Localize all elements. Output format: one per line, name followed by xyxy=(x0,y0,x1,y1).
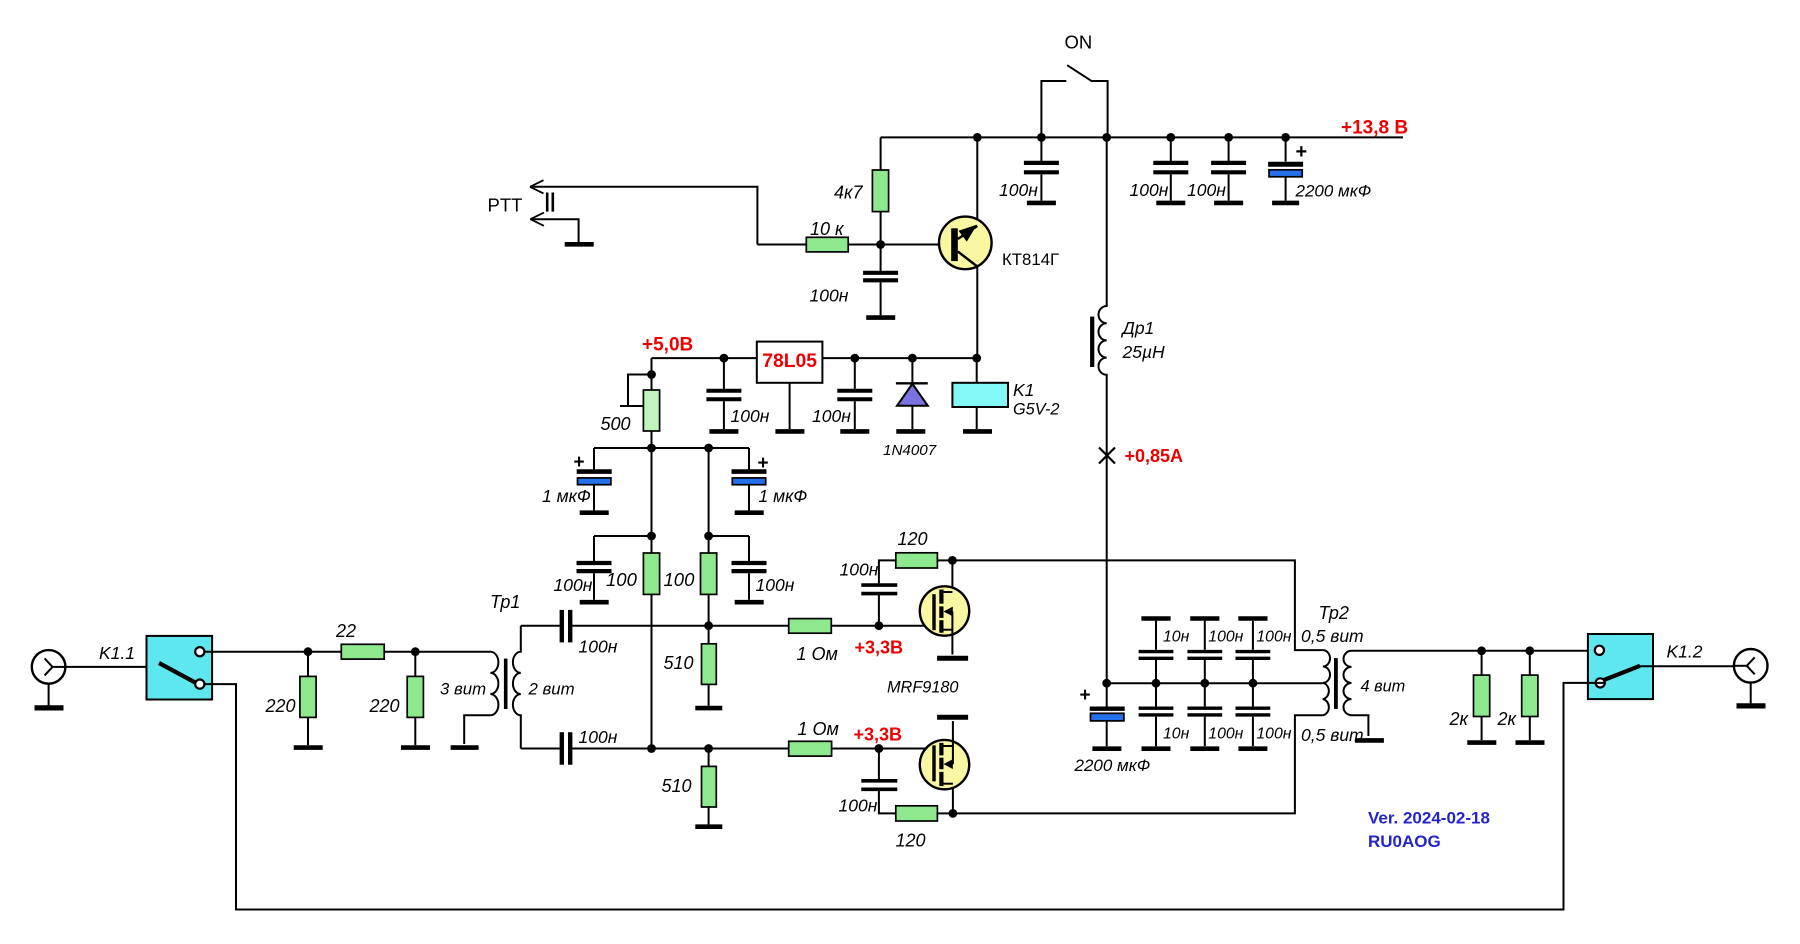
resistor 120 (top) xyxy=(896,553,953,568)
capacitor 100н (rail cap2) xyxy=(1153,137,1188,200)
label 510 (bottom) xyxy=(662,776,692,796)
svg-text:2200 мкФ: 2200 мкФ xyxy=(1295,182,1372,201)
svg-text:100н: 100н xyxy=(1256,629,1291,646)
label 120 (top) xyxy=(898,529,928,549)
svg-text:100н: 100н xyxy=(756,575,795,595)
core Tp1 xyxy=(504,659,508,709)
label Ver. 2024-02-18 xyxy=(1368,809,1490,828)
wire drain bottom to Tp2 xyxy=(953,715,1323,813)
label 220 (left) xyxy=(265,696,296,716)
resistor 4к7 xyxy=(872,137,888,244)
junction reg-in cap xyxy=(850,354,859,363)
label PTT xyxy=(488,195,523,216)
svg-text:1 Ом: 1 Ом xyxy=(798,719,839,739)
label 100н (reg in cap) xyxy=(812,406,851,426)
wire +5V output line xyxy=(652,357,757,359)
label + (1мкФ right) xyxy=(758,453,769,474)
label 100н (bias left) xyxy=(554,575,593,595)
wire bias mid right xyxy=(709,535,749,537)
capacitor 1 мкФ (left) xyxy=(577,448,612,510)
label G5V-2 xyxy=(1013,401,1059,419)
fuse +0,85A xyxy=(1099,448,1115,464)
capacitor 100н (bank upper 3) xyxy=(1236,619,1271,684)
transformer Tp1 primary 3 вит xyxy=(464,652,498,744)
svg-text:220: 220 xyxy=(369,696,400,716)
junction bank 3 xyxy=(1249,679,1258,688)
transistor Q1 КТ814Г xyxy=(939,137,992,358)
diode 1N4007 xyxy=(896,358,928,429)
resistor 100 (right) xyxy=(701,553,717,594)
resistor 10 к xyxy=(757,237,938,252)
label 0,5 вит (top) xyxy=(1301,626,1364,646)
ground (MRF9180 top source) xyxy=(937,656,968,661)
svg-text:+: + xyxy=(758,453,769,474)
ground (bank lower 3) xyxy=(1238,746,1267,751)
capacitor 100н (bias left) xyxy=(577,536,612,600)
ground (510 bottom) xyxy=(695,824,722,829)
ground (base cap) xyxy=(866,315,895,320)
label 2200 мкФ (rail) xyxy=(1295,182,1372,201)
label 220 (right) xyxy=(369,696,400,716)
capacitor 100н (bank lower 2) xyxy=(1187,683,1222,746)
ground (PTT) xyxy=(565,242,594,247)
label КТ814Г xyxy=(1002,250,1059,269)
junction relay node xyxy=(972,354,981,363)
capacitor 100н (bias right) xyxy=(732,536,767,600)
svg-text:K1.2: K1.2 xyxy=(1667,642,1703,662)
label Др1 xyxy=(1121,318,1155,338)
label 10н (bank lower 1) xyxy=(1163,726,1190,743)
wire bias mid left xyxy=(594,535,652,537)
svg-text:100н: 100н xyxy=(1208,629,1243,646)
svg-text:100н: 100н xyxy=(579,637,618,657)
label K1.2 xyxy=(1667,642,1703,662)
svg-text:510: 510 xyxy=(664,653,694,673)
label || (PTT jack) xyxy=(547,193,553,212)
svg-text:510: 510 xyxy=(662,776,692,796)
label +5,0В xyxy=(642,335,693,356)
junction gate top xyxy=(875,621,884,630)
junction gate bottom xyxy=(875,744,884,753)
svg-text:1N4007: 1N4007 xyxy=(883,442,937,459)
svg-text:+5,0В: +5,0В xyxy=(642,335,693,356)
junction drain top xyxy=(948,556,957,565)
svg-text:+13,8 В: +13,8 В xyxy=(1341,118,1408,139)
ground (bank lower 1) xyxy=(1142,746,1171,751)
label 100н (bank upper 2) xyxy=(1208,629,1243,646)
wire cap bank line xyxy=(1107,682,1323,684)
label 2200 мкФ (bank) xyxy=(1074,756,1151,775)
transformer Tp2 secondary 4 вит xyxy=(1344,651,1352,715)
core Tp2 xyxy=(1334,658,1338,709)
svg-text:100н: 100н xyxy=(554,575,593,595)
svg-text:10н: 10н xyxy=(1163,726,1190,743)
wire PTT line 1 xyxy=(530,187,757,245)
svg-text:100н: 100н xyxy=(579,727,618,747)
resistor 1 Ом (bottom) xyxy=(789,741,933,756)
label 3 вит xyxy=(440,680,486,699)
ground (rail cap3) xyxy=(1214,201,1243,206)
svg-text:Тр2: Тр2 xyxy=(1319,603,1349,623)
label 100н (bias right) xyxy=(756,575,795,595)
svg-text:3 вит: 3 вит xyxy=(440,680,486,699)
label 2к (left) xyxy=(1449,709,1470,729)
ground (bank lower 2) xyxy=(1190,746,1219,751)
label 1 Ом (bottom) xyxy=(798,719,839,739)
label 2 вит xyxy=(528,680,575,699)
svg-text:ON: ON xyxy=(1065,32,1093,53)
label 100н (coupling top) xyxy=(579,637,618,657)
label 4к7 xyxy=(834,183,864,203)
svg-text:+: + xyxy=(1080,685,1091,706)
junction bias mid right xyxy=(704,532,713,541)
capacitor 100н (bank upper 2) xyxy=(1187,619,1222,684)
label 2к (right) xyxy=(1497,709,1518,729)
junction lower-line bias xyxy=(647,744,656,753)
svg-text:+: + xyxy=(1296,141,1308,163)
ground (1мкФ right) xyxy=(735,510,764,515)
wire input to relay xyxy=(65,666,146,668)
ground (220 right) xyxy=(401,745,430,750)
transformer Tp1 secondary 2 вит xyxy=(513,626,521,749)
wire RX bypass xyxy=(204,683,1604,910)
svg-text:4к7: 4к7 xyxy=(834,183,864,203)
connector output antenna xyxy=(1734,649,1768,683)
label 100н (base cap) xyxy=(810,286,849,306)
svg-text:100н: 100н xyxy=(839,796,878,816)
ground (rail cap2) xyxy=(1156,201,1185,206)
svg-text:+: + xyxy=(574,452,585,473)
svg-text:25µН: 25µН xyxy=(1122,342,1166,362)
inductor Др1 25µН xyxy=(1099,137,1107,683)
resistor 220 (right) xyxy=(407,652,423,746)
junction input node 1 xyxy=(304,647,313,656)
svg-text:100н: 100н xyxy=(1130,180,1169,200)
label 25µН xyxy=(1122,342,1166,362)
wire 22 to Tp1 xyxy=(384,651,490,653)
svg-text:500: 500 xyxy=(601,414,631,434)
node +13,8V label xyxy=(1341,118,1408,139)
wire drain top to Tp2 xyxy=(952,560,1322,650)
svg-text:2 вит: 2 вит xyxy=(528,680,575,699)
wire Tp2 secondary top xyxy=(1352,650,1596,652)
label +3,3В (bottom) xyxy=(854,725,903,745)
junction gate top 510 xyxy=(704,621,713,630)
resistor 1 Ом (top) xyxy=(789,619,933,634)
label 1N4007 xyxy=(883,442,937,459)
label + (1мкФ left) xyxy=(574,452,585,473)
junction bias top right xyxy=(704,444,713,453)
label 100 (right) xyxy=(664,569,696,590)
ground (220 left) xyxy=(294,745,323,750)
svg-text:2200 мкФ: 2200 мкФ xyxy=(1074,756,1151,775)
ground (2к left) xyxy=(1467,740,1496,745)
svg-text:100н: 100н xyxy=(1208,726,1243,743)
junction reg-out cap xyxy=(720,354,729,363)
wire bias vertical left xyxy=(651,448,653,553)
svg-text:Др1: Др1 xyxy=(1121,318,1155,338)
relay K1.1 xyxy=(147,636,213,700)
label RU0AOG xyxy=(1368,832,1441,851)
label ON xyxy=(1065,32,1093,53)
junction rail-switch-right xyxy=(1102,133,1111,142)
capacitor 100н (bank lower 3) xyxy=(1236,683,1271,746)
wire Tp2 secondary bottom xyxy=(1352,715,1369,736)
junction rail-c2 xyxy=(1166,133,1175,142)
junction bank 2 xyxy=(1200,679,1209,688)
capacitor 100н (coupling top) xyxy=(521,610,789,643)
capacitor 100н (rail cap3) xyxy=(1211,137,1246,200)
resistor 22 xyxy=(341,644,384,659)
arrow PTT 1 xyxy=(530,180,544,193)
relay K1.2 xyxy=(1588,634,1653,699)
capacitor 100н (reg in) xyxy=(837,358,872,429)
svg-text:1 Ом: 1 Ом xyxy=(797,644,838,664)
svg-text:100н: 100н xyxy=(1256,726,1291,743)
wire bias to upper gate line xyxy=(708,594,710,625)
ground (2к right) xyxy=(1516,740,1545,745)
svg-text:G5V-2: G5V-2 xyxy=(1013,401,1059,419)
svg-text:Ver. 2024-02-18: Ver. 2024-02-18 xyxy=(1368,809,1490,828)
capacitor 10н (bank lower 1) xyxy=(1139,683,1174,746)
junction rail-switch-left xyxy=(1037,133,1046,142)
junction 2к right xyxy=(1525,646,1534,655)
label 10н (bank upper 1) xyxy=(1163,629,1190,646)
resistor 2к (left) xyxy=(1474,651,1490,740)
label 100н (reg out cap) xyxy=(731,406,770,426)
svg-text:78L05: 78L05 xyxy=(762,351,817,372)
capacitor 1 мкФ (right) xyxy=(732,448,767,510)
svg-text:+3,3В: +3,3В xyxy=(854,725,903,745)
capacitor 2200 мкФ (rail electrolytic) xyxy=(1268,137,1303,200)
capacitor 100н (feedback top) xyxy=(861,560,897,625)
relay K1 G5V-2 xyxy=(952,358,1008,429)
label 500 xyxy=(601,414,631,434)
connector input antenna xyxy=(32,650,66,684)
label 1 мкФ (left) xyxy=(542,486,591,506)
label 10 к xyxy=(810,219,845,239)
wire bias top line xyxy=(594,447,749,449)
label 100н (bank lower 2) xyxy=(1208,726,1243,743)
ground (rail cap1) xyxy=(1027,201,1056,206)
label 1 Ом (top) xyxy=(797,644,838,664)
junction drain bottom xyxy=(949,809,958,818)
ground (bias cap left) xyxy=(580,600,609,605)
svg-text:220: 220 xyxy=(265,696,296,716)
svg-text:10 к: 10 к xyxy=(810,219,845,239)
label 100н (feedback bottom) xyxy=(839,796,878,816)
junction rail-c3 xyxy=(1224,133,1233,142)
label + (2200 bank) xyxy=(1080,685,1091,706)
ground (diode) xyxy=(896,429,925,434)
svg-text:2к: 2к xyxy=(1497,709,1518,729)
ground (relay K1) xyxy=(963,429,992,434)
junction 2к left xyxy=(1477,646,1486,655)
junction bias mid left xyxy=(647,532,656,541)
svg-text:2к: 2к xyxy=(1449,709,1470,729)
junction gate bottom 510 xyxy=(704,744,713,753)
transistor VT1 MRF9180 (top) xyxy=(920,560,969,654)
label 100 (left) xyxy=(606,569,638,590)
svg-text:1 мкФ: 1 мкФ xyxy=(542,486,591,506)
regulator U1 78L05 xyxy=(757,342,823,383)
resistor 510 (bottom) xyxy=(702,749,717,825)
capacitor 100н (reg out) xyxy=(706,358,741,429)
resistor 2к (right) xyxy=(1522,651,1538,740)
resistor 220 (left) xyxy=(300,652,316,746)
ground (bias cap right) xyxy=(735,600,764,605)
svg-text:PTT: PTT xyxy=(488,195,523,216)
junction bank main xyxy=(1102,679,1111,688)
label 510 (top) xyxy=(664,653,694,673)
label 0,5 вит (bottom) xyxy=(1301,725,1364,745)
transformer Tp2 primary 0,5+0,5 вит xyxy=(1323,650,1330,715)
resistor 100 (left) xyxy=(643,553,659,594)
capacitor 2200 мкФ (bank) xyxy=(1090,683,1125,746)
label 100н (rail cap3) xyxy=(1187,180,1226,200)
capacitor 10н (bank upper 1) xyxy=(1139,619,1174,684)
junction input node 2 xyxy=(411,647,420,656)
ground (1мкФ left) xyxy=(580,510,609,515)
label 100н (coupling bottom) xyxy=(579,727,618,747)
label + (rail electrolytic) xyxy=(1296,141,1308,163)
svg-text:1 мкФ: 1 мкФ xyxy=(759,486,808,506)
svg-text:100н: 100н xyxy=(731,406,770,426)
ground (Tp2 secondary) xyxy=(1355,738,1384,743)
svg-text:100н: 100н xyxy=(1187,180,1226,200)
capacitor 100н (base) xyxy=(863,245,898,316)
svg-text:КТ814Г: КТ814Г xyxy=(1002,250,1059,269)
label +3,3В (top) xyxy=(855,638,904,658)
label K1 xyxy=(1013,380,1034,400)
ground (rail electrolytic) xyxy=(1272,201,1299,206)
label 100н (bank upper 3) xyxy=(1256,629,1291,646)
svg-text:RU0AOG: RU0AOG xyxy=(1368,832,1441,851)
ground (reg out cap) xyxy=(709,429,738,434)
wire relay K1.2 to output xyxy=(1640,665,1733,667)
svg-text:100н: 100н xyxy=(812,406,851,426)
label 4 вит xyxy=(1361,678,1406,696)
wire 78L05 input line xyxy=(822,357,977,359)
capacitor 100н (rail, left of switch) xyxy=(1024,137,1059,200)
label 100н (rail cap2) xyxy=(1130,180,1169,200)
ground (78L05 pin) xyxy=(775,383,804,432)
svg-text:120: 120 xyxy=(898,529,928,549)
ground (Tp1 primary) xyxy=(451,745,479,750)
svg-text:0,5 вит: 0,5 вит xyxy=(1301,725,1364,745)
wire +13,8V rail xyxy=(881,136,1403,138)
ground (output connector) xyxy=(1737,683,1766,706)
label Тр1 xyxy=(490,592,520,612)
arrow PTT 2 xyxy=(530,213,544,226)
label K1.1 xyxy=(99,643,135,663)
wire bias vertical right xyxy=(708,448,710,553)
svg-text:100н: 100н xyxy=(810,286,849,306)
resistor 120 (bottom) xyxy=(896,806,953,821)
potentiometer 500 xyxy=(620,358,660,448)
svg-text:K1.1: K1.1 xyxy=(99,643,135,663)
capacitor 100н (feedback bottom) xyxy=(861,749,897,814)
svg-text:22: 22 xyxy=(335,621,356,641)
ground (input connector) xyxy=(35,684,64,708)
core Др1 xyxy=(1090,317,1094,367)
resistor 510 (top) xyxy=(702,626,717,706)
ground (MRF9180 bottom source) xyxy=(937,715,968,720)
label MRF9180 xyxy=(887,679,959,697)
svg-text:100н: 100н xyxy=(840,560,879,580)
wire PTT line 2 xyxy=(530,219,578,242)
svg-text:MRF9180: MRF9180 xyxy=(887,679,959,697)
label 1 мкФ (right) xyxy=(759,486,808,506)
svg-text:10н: 10н xyxy=(1163,629,1190,646)
label 100н (feedback top) xyxy=(840,560,879,580)
junction bank 1 xyxy=(1152,679,1161,688)
label Тр2 xyxy=(1319,603,1349,623)
label 120 (bottom) xyxy=(896,831,926,851)
svg-text:100: 100 xyxy=(664,569,696,590)
svg-text:K1: K1 xyxy=(1013,380,1034,400)
label +0,85А xyxy=(1125,446,1184,466)
svg-text:+0,85А: +0,85А xyxy=(1125,446,1184,466)
ground (reg in cap) xyxy=(840,429,869,434)
svg-text:4 вит: 4 вит xyxy=(1361,678,1406,696)
svg-text:120: 120 xyxy=(896,831,926,851)
junction base node xyxy=(876,240,885,249)
svg-text:0,5 вит: 0,5 вит xyxy=(1301,626,1364,646)
junction rail-emitter xyxy=(973,133,982,142)
label 22 xyxy=(335,621,356,641)
ground (510 top) xyxy=(695,706,722,711)
wire relay to 22 xyxy=(204,651,341,653)
junction bias top left xyxy=(647,444,656,453)
svg-text:Тр1: Тр1 xyxy=(490,592,520,612)
label 100н (rail cap1) xyxy=(999,180,1038,200)
junction diode node xyxy=(908,354,917,363)
junction pot wiper xyxy=(647,370,656,379)
wire bias to lower gate line xyxy=(651,594,653,748)
transistor VT2 MRF9180 (bottom) xyxy=(920,721,969,813)
svg-text:100: 100 xyxy=(606,569,638,590)
junction rail-c4 xyxy=(1281,133,1290,142)
switch ON xyxy=(1041,65,1107,137)
svg-text:100н: 100н xyxy=(999,180,1038,200)
ground (2200 bank) xyxy=(1092,746,1121,751)
label 100н (bank lower 3) xyxy=(1256,726,1291,743)
capacitor 100н (coupling bottom) xyxy=(521,732,789,765)
svg-text:+3,3В: +3,3В xyxy=(855,638,904,658)
